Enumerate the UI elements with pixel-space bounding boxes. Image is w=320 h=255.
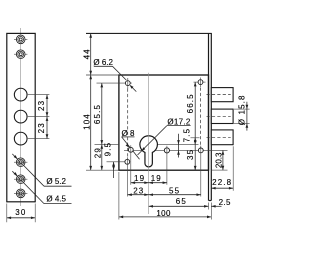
svg-text:44: 44 (82, 48, 91, 59)
svg-text:30: 30 (15, 208, 26, 217)
svg-text:55: 55 (169, 187, 180, 196)
svg-text:2.5: 2.5 (219, 198, 231, 207)
svg-text:20.3: 20.3 (214, 152, 223, 168)
svg-text:66.5: 66.5 (186, 93, 195, 113)
svg-text:Ø 4.5: Ø 4.5 (46, 194, 66, 203)
svg-text:104: 104 (82, 113, 91, 130)
svg-text:23: 23 (37, 122, 46, 133)
svg-text:19: 19 (151, 174, 162, 183)
svg-text:Ø 15.8: Ø 15.8 (237, 94, 246, 125)
svg-text:19: 19 (134, 174, 145, 183)
svg-text:23: 23 (133, 187, 144, 196)
svg-text:65: 65 (176, 197, 187, 206)
svg-text:Ø 6.2: Ø 6.2 (93, 58, 113, 67)
svg-text:7.5: 7.5 (183, 128, 192, 143)
svg-text:23: 23 (37, 100, 46, 111)
svg-text:29: 29 (94, 147, 103, 158)
svg-text:100: 100 (156, 209, 171, 218)
svg-text:Ø17.2: Ø17.2 (167, 117, 191, 126)
svg-text:Ø 5.2: Ø 5.2 (46, 177, 66, 186)
svg-text:35: 35 (186, 149, 195, 160)
svg-text:9.5: 9.5 (104, 142, 113, 157)
svg-text:22.8: 22.8 (212, 178, 232, 187)
svg-text:65.5: 65.5 (93, 104, 102, 124)
